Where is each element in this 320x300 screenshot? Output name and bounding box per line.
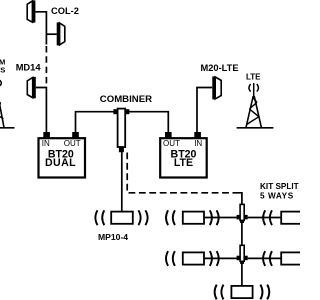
right tab bbox=[244, 215, 248, 220]
wire: trunk S2 to bottom antenna bbox=[241, 264, 243, 286]
arcs left bbox=[215, 285, 224, 300]
wire: BT20 DUAL OUT to combiner bbox=[76, 112, 114, 132]
wire: dashed from combiner to splitter kit bbox=[127, 153, 238, 193]
antenna row2 left bbox=[166, 251, 237, 266]
svg-text:M20-LTE: M20-LTE bbox=[201, 63, 239, 73]
arcs right bbox=[210, 251, 219, 266]
body bbox=[281, 212, 302, 224]
body bbox=[281, 252, 302, 264]
tower braces bbox=[0, 92, 3, 119]
body bbox=[183, 212, 204, 224]
connector IN bbox=[194, 132, 201, 138]
tower right leg bbox=[254, 96, 261, 128]
wire: MD14 feed + trunk to BT20 DUAL IN bbox=[36, 88, 47, 133]
radiator arc bbox=[0, 80, 1, 86]
arcs right bbox=[138, 210, 147, 225]
bottom tip bbox=[240, 220, 244, 223]
body bbox=[240, 204, 244, 220]
bottom tip bbox=[240, 261, 244, 264]
arcs right bbox=[210, 210, 219, 225]
donor tower GSM/UMTS (left edge, mostly cut off) bbox=[0, 58, 15, 128]
antenna COL-2 upper (panel, facing left) bbox=[27, 0, 35, 22]
BT20 DUAL unit bbox=[39, 132, 86, 178]
left tab bbox=[237, 256, 241, 261]
body bbox=[231, 286, 252, 298]
svg-text:IN: IN bbox=[42, 139, 50, 148]
wire from splitter S2 bbox=[248, 257, 282, 259]
svg-text:LTE: LTE bbox=[174, 157, 193, 169]
antenna bottom bbox=[215, 285, 270, 300]
connector OUT bbox=[165, 132, 172, 138]
box BT20 DUAL bbox=[39, 138, 86, 177]
svg-text:OUT: OUT bbox=[64, 139, 81, 148]
svg-text:DUAL: DUAL bbox=[45, 157, 76, 169]
combiner right tab bbox=[125, 109, 129, 114]
antenna row1 right (cut at edge) bbox=[248, 210, 303, 225]
splitter S1 bbox=[237, 204, 248, 223]
wire: trunk S1 to S2 bbox=[241, 223, 243, 246]
body bbox=[183, 252, 204, 264]
tower right leg bbox=[0, 91, 4, 128]
antenna MP10-4 bbox=[95, 210, 147, 225]
BT20 LTE unit bbox=[160, 132, 207, 178]
connector OUT bbox=[72, 132, 79, 138]
arcs right bbox=[260, 285, 269, 300]
antenna COL-2 lower (panel, facing right) bbox=[57, 22, 65, 45]
wire to splitter S2 bbox=[204, 257, 237, 259]
svg-text:OUT: OUT bbox=[163, 139, 180, 148]
tower mast bbox=[253, 83, 255, 97]
wire: combiner to BT20 LTE OUT bbox=[129, 112, 168, 132]
donor tower LTE (right) bbox=[237, 72, 274, 128]
svg-text:UMTS: UMTS bbox=[0, 66, 5, 75]
wire: corner into splitter trunk bbox=[238, 193, 242, 205]
tower ground line bbox=[237, 127, 274, 129]
left tab bbox=[237, 215, 241, 220]
antenna row1 left bbox=[166, 210, 237, 225]
combiner left tab bbox=[113, 109, 117, 114]
svg-text:COMBINER: COMBINER bbox=[100, 94, 152, 105]
tower ground line bbox=[0, 127, 15, 129]
wire: COL-2 upper antenna feed bbox=[35, 12, 46, 45]
svg-text:MD14: MD14 bbox=[16, 63, 42, 73]
connector IN bbox=[43, 132, 50, 138]
combiner bottom tip bbox=[119, 147, 124, 152]
svg-text:KIT SPLIT: KIT SPLIT bbox=[260, 182, 299, 191]
arcs left bbox=[95, 210, 104, 225]
svg-text:COL-2: COL-2 bbox=[51, 6, 79, 16]
body bbox=[111, 212, 133, 224]
tower left leg bbox=[246, 96, 253, 128]
wire: combiner output down to MP10-4 bbox=[121, 152, 123, 212]
antenna row2 right (cut at edge) bbox=[248, 251, 303, 266]
arcs left bbox=[263, 251, 272, 266]
svg-text:MP10-4: MP10-4 bbox=[98, 232, 128, 242]
svg-text:5 WAYS: 5 WAYS bbox=[260, 191, 294, 200]
right tab bbox=[244, 256, 248, 261]
wire: dashed trunk segment bbox=[45, 46, 47, 85]
combiner body bbox=[118, 109, 126, 147]
wire from splitter S1 bbox=[248, 217, 282, 219]
svg-text:LTE: LTE bbox=[246, 72, 261, 81]
body bbox=[240, 245, 244, 261]
splitter S2 bbox=[237, 245, 248, 264]
wire: BT20 LTE IN to M20-LTE antenna bbox=[197, 88, 212, 133]
antenna M20-LTE (panel, facing right) bbox=[212, 76, 221, 99]
arcs left bbox=[166, 210, 175, 225]
tower braces bbox=[247, 98, 259, 125]
radiator right arc bbox=[257, 84, 259, 92]
svg-text:IN: IN bbox=[194, 139, 202, 148]
radiator left arc bbox=[249, 84, 251, 92]
antenna MD14 (panel, facing left) bbox=[27, 77, 36, 98]
wire: COL-2 lower antenna feed bbox=[46, 33, 56, 35]
combiner bbox=[113, 109, 129, 153]
arcs left bbox=[166, 251, 175, 266]
box BT20 LTE bbox=[160, 138, 207, 177]
wire to splitter S1 bbox=[204, 217, 237, 219]
arcs left bbox=[263, 210, 272, 225]
